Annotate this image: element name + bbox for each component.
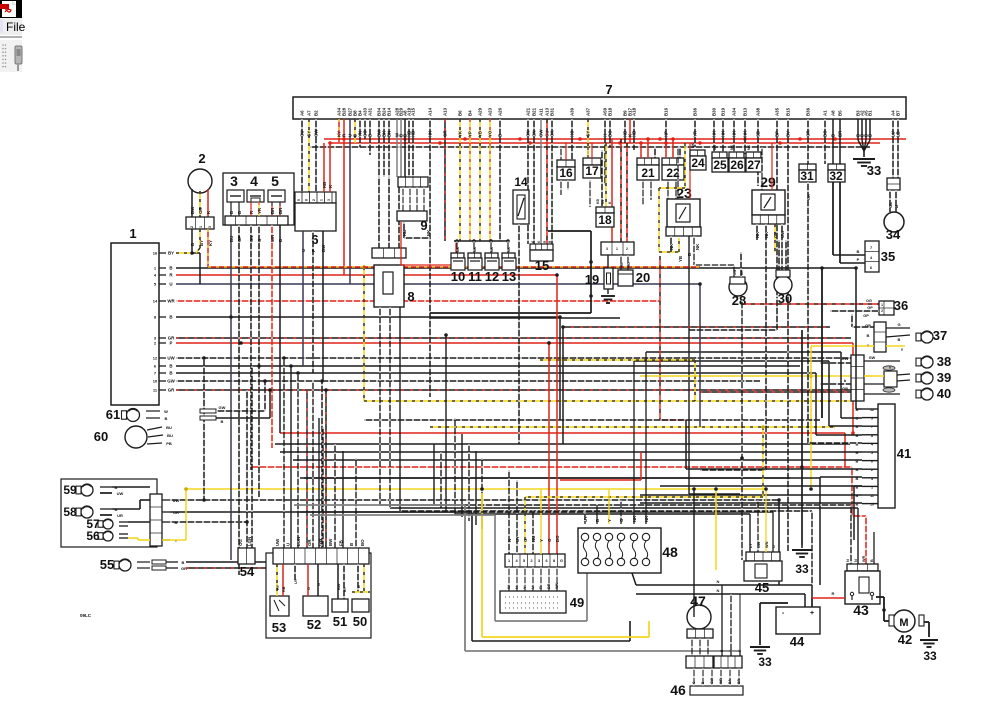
svg-text:NK: NK <box>713 144 717 150</box>
svg-text:5: 5 <box>271 173 279 189</box>
svg-text:32: 32 <box>829 169 843 183</box>
svg-text:BY: BY <box>343 586 347 592</box>
svg-text:BR: BR <box>547 583 551 589</box>
svg-text:U: U <box>286 543 291 546</box>
svg-text:1: 1 <box>881 303 883 307</box>
svg-text:3: 3 <box>230 173 238 189</box>
svg-text:GW: GW <box>869 356 876 360</box>
svg-text:B: B <box>165 416 168 421</box>
svg-text:BB: BB <box>740 270 744 275</box>
svg-text:UY: UY <box>294 578 298 584</box>
svg-text:3: 3 <box>606 247 608 251</box>
svg-text:6: 6 <box>545 559 547 563</box>
svg-text:GP: GP <box>863 314 869 318</box>
svg-text:GP: GP <box>867 306 873 310</box>
svg-text:BW: BW <box>190 206 195 214</box>
svg-text:UW: UW <box>757 541 761 548</box>
svg-text:34: 34 <box>886 227 901 242</box>
svg-text:U: U <box>531 586 535 589</box>
svg-text:48: 48 <box>662 544 678 560</box>
svg-text:B: B <box>357 585 361 588</box>
svg-text:GW: GW <box>167 379 175 384</box>
svg-text:O: O <box>619 518 624 522</box>
svg-text:P: P <box>170 341 173 346</box>
svg-text:BY: BY <box>199 240 204 246</box>
svg-text:1: 1 <box>871 485 873 489</box>
svg-text:NK: NK <box>456 246 460 252</box>
svg-text:2: 2 <box>871 468 873 472</box>
svg-text:36: 36 <box>894 298 908 313</box>
svg-text:42: 42 <box>898 632 912 647</box>
svg-text:GR: GR <box>307 539 312 546</box>
svg-text:55: 55 <box>100 557 114 572</box>
svg-text:U: U <box>169 282 172 287</box>
svg-text:60: 60 <box>94 429 108 444</box>
svg-text:6: 6 <box>871 460 873 464</box>
svg-text:6: 6 <box>870 266 872 270</box>
svg-text:NK: NK <box>490 246 494 252</box>
svg-text:A29: A29 <box>478 107 483 116</box>
svg-text:58: 58 <box>63 505 77 519</box>
svg-text:25: 25 <box>713 158 727 172</box>
svg-text:KB: KB <box>402 230 407 236</box>
svg-text:51: 51 <box>333 614 347 629</box>
svg-text:BU: BU <box>167 433 173 438</box>
svg-text:GR: GR <box>807 194 811 200</box>
svg-text:B15: B15 <box>786 107 791 116</box>
svg-text:O: O <box>307 587 311 590</box>
svg-text:B: B <box>856 484 859 489</box>
svg-text:2: 2 <box>626 247 628 251</box>
svg-text:UR: UR <box>117 513 123 518</box>
svg-text:KO: KO <box>627 262 631 267</box>
svg-text:GY: GY <box>601 198 605 204</box>
svg-text:7: 7 <box>605 82 612 97</box>
svg-text:B: B <box>867 333 870 338</box>
svg-text:YR: YR <box>257 207 262 214</box>
svg-text:A8: A8 <box>831 110 836 116</box>
svg-text:BO: BO <box>360 539 365 546</box>
svg-text:B16: B16 <box>664 107 669 116</box>
svg-text:NK: NK <box>730 144 734 150</box>
svg-text:W: W <box>164 409 168 414</box>
svg-text:LB: LB <box>896 131 901 137</box>
svg-text:G: G <box>560 559 563 563</box>
svg-text:5: 5 <box>871 451 873 455</box>
svg-text:NK: NK <box>644 515 649 522</box>
svg-text:GN: GN <box>249 235 254 242</box>
svg-text:UW: UW <box>117 491 124 496</box>
svg-text:B18: B18 <box>608 107 613 116</box>
svg-text:KB: KB <box>322 182 327 188</box>
svg-text:NK: NK <box>428 130 433 137</box>
svg-text:38: 38 <box>937 354 951 369</box>
svg-text:YO: YO <box>488 130 493 137</box>
svg-text:BR: BR <box>838 130 843 137</box>
svg-text:4: 4 <box>250 173 258 189</box>
svg-text:A1: A1 <box>823 110 828 116</box>
svg-text:NK: NK <box>721 130 726 137</box>
svg-text:BW: BW <box>321 244 326 252</box>
svg-text:27: 27 <box>747 158 761 172</box>
svg-text:46: 46 <box>670 682 686 698</box>
svg-text:10: 10 <box>153 379 158 384</box>
svg-text:A21: A21 <box>526 107 531 116</box>
svg-text:WN: WN <box>555 582 559 589</box>
svg-text:12: 12 <box>153 356 158 361</box>
svg-text:KB: KB <box>632 131 637 137</box>
svg-text:11: 11 <box>870 494 874 498</box>
svg-text:ON: ON <box>526 130 531 137</box>
svg-text:U: U <box>772 545 776 548</box>
svg-text:7: 7 <box>870 246 872 250</box>
svg-text:BR: BR <box>737 679 741 684</box>
svg-text:BG: BG <box>608 130 613 137</box>
svg-text:3: 3 <box>871 477 873 481</box>
svg-text:BW: BW <box>733 270 737 275</box>
svg-text:B5: B5 <box>838 110 843 116</box>
svg-text:11: 11 <box>468 269 482 284</box>
svg-text:B1: B1 <box>868 110 873 116</box>
svg-text:A26: A26 <box>498 107 503 116</box>
svg-text:R: R <box>832 591 835 596</box>
svg-text:BR: BR <box>270 207 275 214</box>
svg-text:A35: A35 <box>775 107 780 116</box>
svg-text:A14: A14 <box>428 107 433 116</box>
svg-text:GU: GU <box>300 130 305 137</box>
svg-text:17: 17 <box>585 164 599 178</box>
svg-text:14: 14 <box>514 175 528 189</box>
svg-text:54: 54 <box>240 564 255 579</box>
svg-text:UW: UW <box>167 356 175 361</box>
svg-text:35: 35 <box>881 249 895 264</box>
svg-text:B: B <box>169 371 172 376</box>
svg-text:N: N <box>515 586 519 589</box>
svg-text:33: 33 <box>923 649 937 663</box>
svg-text:OR: OR <box>198 207 203 214</box>
svg-text:GW: GW <box>842 356 849 361</box>
svg-text:B: B <box>868 134 873 137</box>
svg-text:53: 53 <box>272 620 286 635</box>
svg-text:G: G <box>257 238 262 242</box>
svg-text:Y: Y <box>539 539 544 542</box>
svg-text:G: G <box>523 538 528 542</box>
svg-text:B36: B36 <box>806 107 811 116</box>
svg-text:NK: NK <box>755 231 760 238</box>
svg-text:GW: GW <box>219 405 226 410</box>
svg-text:16: 16 <box>559 166 573 180</box>
svg-text:BY: BY <box>168 251 174 256</box>
svg-text:59: 59 <box>63 483 77 497</box>
svg-text:PB: PB <box>166 441 172 446</box>
svg-text:1: 1 <box>320 199 324 201</box>
svg-text:B31: B31 <box>550 107 555 116</box>
svg-text:BU: BU <box>166 425 172 430</box>
svg-text:B: B <box>182 560 185 565</box>
svg-text:3: 3 <box>208 226 212 228</box>
svg-text:20: 20 <box>636 270 650 285</box>
svg-text:18: 18 <box>598 213 612 227</box>
svg-text:10: 10 <box>870 503 874 507</box>
svg-text:9: 9 <box>871 417 873 421</box>
svg-text:O: O <box>547 538 552 542</box>
svg-text:A18: A18 <box>632 107 637 116</box>
svg-text:B: B <box>169 266 172 271</box>
svg-text:A23: A23 <box>488 107 493 116</box>
svg-text:NK: NK <box>507 246 511 252</box>
svg-text:YB: YB <box>478 131 483 137</box>
svg-text:B30: B30 <box>712 107 717 116</box>
svg-text:NU: NU <box>531 536 536 542</box>
svg-text:P: P <box>857 257 860 262</box>
svg-text:45: 45 <box>755 580 769 595</box>
svg-text:13: 13 <box>502 269 516 284</box>
svg-text:B13: B13 <box>743 107 748 116</box>
svg-text:2: 2 <box>190 226 194 228</box>
svg-text:KB: KB <box>411 131 416 137</box>
svg-text:A37: A37 <box>586 107 591 116</box>
svg-text:5: 5 <box>523 559 525 563</box>
svg-text:WR: WR <box>862 555 866 562</box>
svg-text:GR: GR <box>443 130 448 137</box>
svg-text:2: 2 <box>881 309 883 313</box>
svg-text:2: 2 <box>530 559 532 563</box>
svg-text:BW: BW <box>337 583 341 590</box>
svg-text:8: 8 <box>305 199 309 201</box>
svg-text:FB: FB <box>339 540 344 546</box>
svg-text:Y: Y <box>901 347 904 352</box>
svg-text:B: B <box>687 253 692 256</box>
svg-text:09LC: 09LC <box>80 613 92 618</box>
svg-text:KB: KB <box>596 199 600 204</box>
svg-text:GR: GR <box>842 386 848 391</box>
svg-text:B: B <box>190 243 195 246</box>
svg-text:37: 37 <box>933 328 947 343</box>
svg-text:B21: B21 <box>532 107 537 116</box>
svg-text:RY: RY <box>276 584 280 590</box>
svg-text:Y: Y <box>607 519 612 522</box>
svg-text:B: B <box>857 249 860 254</box>
svg-text:15: 15 <box>535 258 549 273</box>
svg-text:GY: GY <box>773 232 778 238</box>
svg-text:B: B <box>368 134 373 137</box>
svg-text:B: B <box>498 134 503 137</box>
svg-text:B: B <box>278 239 283 242</box>
svg-text:G: G <box>692 681 696 684</box>
svg-text:B: B <box>856 459 859 464</box>
svg-text:3: 3 <box>327 199 331 201</box>
svg-text:YK: YK <box>458 130 463 137</box>
svg-text:50: 50 <box>353 614 367 629</box>
svg-text:BY: BY <box>786 131 791 137</box>
svg-text:7: 7 <box>871 425 873 429</box>
svg-text:BA: BA <box>728 679 732 684</box>
svg-text:8: 8 <box>407 289 414 304</box>
svg-text:GL: GL <box>888 202 893 208</box>
svg-text:40: 40 <box>937 386 951 401</box>
svg-text:49: 49 <box>570 595 584 610</box>
svg-text:B: B <box>169 315 172 320</box>
svg-text:33: 33 <box>758 655 772 669</box>
svg-text:12: 12 <box>485 269 499 284</box>
svg-text:BO: BO <box>823 130 828 137</box>
svg-text:8: 8 <box>871 434 873 438</box>
svg-text:NK: NK <box>632 515 637 522</box>
svg-text:GP: GP <box>865 323 871 328</box>
svg-text:B4: B4 <box>468 110 473 116</box>
svg-text:B: B <box>894 205 899 208</box>
svg-text:NK: NK <box>426 229 431 236</box>
svg-text:N: N <box>846 559 850 562</box>
svg-text:19: 19 <box>585 272 599 287</box>
svg-text:56: 56 <box>86 529 100 543</box>
svg-text:1: 1 <box>508 559 510 563</box>
svg-text:24: 24 <box>691 156 705 170</box>
svg-text:A31: A31 <box>368 107 373 116</box>
svg-text:NK: NK <box>712 130 717 137</box>
svg-text:B19: B19 <box>721 107 726 116</box>
svg-text:33: 33 <box>795 562 809 576</box>
svg-text:4: 4 <box>871 442 873 446</box>
svg-text:47: 47 <box>690 593 706 609</box>
svg-text:YP: YP <box>468 131 473 137</box>
svg-text:NK: NK <box>747 144 751 150</box>
svg-text:UW: UW <box>275 538 280 546</box>
svg-text:KY: KY <box>208 240 213 246</box>
svg-text:NK: NK <box>732 130 737 137</box>
svg-text:5: 5 <box>297 199 301 201</box>
svg-text:KB: KB <box>620 262 624 267</box>
svg-text:B: B <box>856 441 859 446</box>
svg-text:DO: DO <box>555 535 560 542</box>
svg-text:GW: GW <box>710 677 714 684</box>
svg-text:61: 61 <box>106 407 120 422</box>
svg-text:A13: A13 <box>443 107 448 116</box>
svg-text:UW: UW <box>780 230 785 238</box>
svg-text:WN: WN <box>765 541 769 548</box>
svg-text:W: W <box>507 585 511 589</box>
svg-text:43: 43 <box>853 602 869 618</box>
svg-text:GR: GR <box>168 388 175 393</box>
svg-text:OW: OW <box>539 129 544 137</box>
svg-text:F: F <box>311 249 316 252</box>
svg-text:A39: A39 <box>570 107 575 116</box>
svg-text:B7: B7 <box>896 110 901 116</box>
svg-text:BN: BN <box>387 131 392 137</box>
svg-text:B: B <box>349 543 354 546</box>
svg-text:1: 1 <box>616 247 618 251</box>
svg-text:A11: A11 <box>539 108 544 116</box>
svg-text:28: 28 <box>732 293 746 308</box>
svg-text:RB: RB <box>282 586 286 592</box>
svg-text:B28: B28 <box>342 107 347 116</box>
svg-text:B2: B2 <box>314 110 319 116</box>
svg-text:A38: A38 <box>756 107 761 116</box>
svg-text:GW: GW <box>317 538 322 546</box>
svg-text:A7: A7 <box>307 110 312 116</box>
svg-text:NK: NK <box>695 243 700 250</box>
svg-text:BW: BW <box>328 538 333 546</box>
svg-text:LY: LY <box>749 543 753 548</box>
svg-text:U: U <box>301 249 306 252</box>
svg-text:GR: GR <box>806 130 811 137</box>
svg-text:8: 8 <box>553 559 555 563</box>
svg-text:M: M <box>899 617 908 629</box>
svg-text:BP: BP <box>775 131 780 137</box>
svg-text:BU: BU <box>229 236 234 242</box>
svg-text:+: + <box>810 610 814 617</box>
svg-text:A6: A6 <box>300 110 305 116</box>
svg-text:B: B <box>229 211 234 214</box>
svg-text:KO: KO <box>570 130 575 137</box>
svg-text:WR: WR <box>270 234 275 242</box>
svg-text:SB: SB <box>756 131 761 137</box>
svg-text:G: G <box>897 322 900 327</box>
svg-text:B: B <box>870 559 874 562</box>
svg-text:GY: GY <box>307 131 312 137</box>
svg-text:16: 16 <box>153 251 158 256</box>
svg-text:B: B <box>221 419 224 424</box>
svg-text:YR: YR <box>693 130 698 137</box>
svg-text:21: 21 <box>641 166 655 180</box>
svg-text:B: B <box>831 134 836 137</box>
svg-text:UY: UY <box>515 536 520 542</box>
svg-text:BR: BR <box>278 207 283 214</box>
svg-text:File: File <box>6 20 26 34</box>
svg-text:UR: UR <box>173 510 179 515</box>
svg-text:B6: B6 <box>458 110 463 116</box>
svg-text:N: N <box>717 588 720 593</box>
svg-text:B: B <box>237 211 242 214</box>
svg-text:2: 2 <box>198 151 205 166</box>
svg-text:WR: WR <box>167 299 175 304</box>
svg-text:1: 1 <box>199 226 203 228</box>
svg-text:OK: OK <box>550 130 555 137</box>
svg-text:R: R <box>539 586 543 589</box>
svg-text:2: 2 <box>312 199 316 201</box>
svg-text:B: B <box>856 450 859 455</box>
svg-text:WR: WR <box>719 678 723 684</box>
svg-text:B: B <box>898 337 901 342</box>
svg-text:NK: NK <box>473 246 477 252</box>
svg-text:NK: NK <box>669 243 674 250</box>
svg-text:NK: NK <box>743 130 748 137</box>
svg-text:31: 31 <box>800 169 814 183</box>
svg-text:G: G <box>317 583 321 586</box>
svg-text:B: B <box>169 364 172 369</box>
svg-text:26: 26 <box>730 158 744 172</box>
svg-text:N: N <box>717 579 720 584</box>
svg-text:NK: NK <box>764 231 769 238</box>
svg-text:B36: B36 <box>693 107 698 116</box>
svg-text:UW: UW <box>173 498 180 503</box>
svg-text:YB: YB <box>678 256 683 262</box>
svg-text:10: 10 <box>451 269 465 284</box>
svg-text:N: N <box>507 539 512 542</box>
svg-text:GP: GP <box>237 236 242 242</box>
svg-text:41: 41 <box>897 446 911 461</box>
svg-text:39: 39 <box>937 370 951 385</box>
svg-text:NK: NK <box>691 142 695 148</box>
svg-text:LGN: LGN <box>296 537 301 546</box>
svg-text:12: 12 <box>870 408 874 412</box>
svg-text:33: 33 <box>867 163 881 178</box>
svg-text:N: N <box>854 559 858 562</box>
svg-text:14: 14 <box>153 299 158 304</box>
svg-text:OG: OG <box>238 539 243 546</box>
svg-text:OG: OG <box>866 299 872 303</box>
svg-text:1: 1 <box>129 226 136 241</box>
